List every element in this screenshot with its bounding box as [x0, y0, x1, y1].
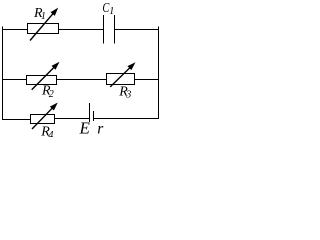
svg-text:1: 1 [109, 6, 114, 17]
svg-text:E: E [79, 119, 91, 137]
svg-text:2: 2 [49, 89, 54, 100]
svg-text:r: r [97, 120, 104, 137]
svg-text:3: 3 [125, 90, 131, 101]
svg-text:4: 4 [48, 130, 53, 137]
svg-text:1: 1 [41, 11, 46, 22]
